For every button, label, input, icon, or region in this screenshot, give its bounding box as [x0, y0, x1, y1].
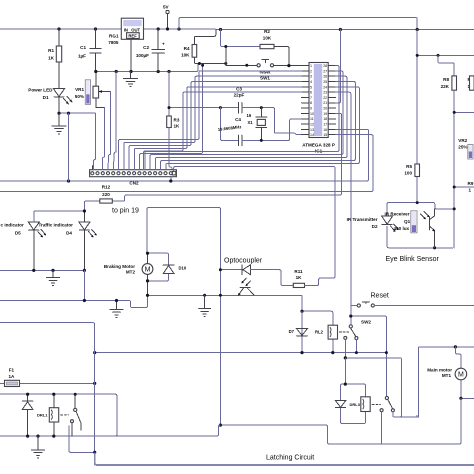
- svg-text:REF: REF: [128, 33, 137, 38]
- svg-text:C1: C1: [80, 45, 86, 50]
- switch SW2: [351, 302, 474, 325]
- wire indicator top rail y211: [34, 211, 85, 222]
- resistor R8: [438, 55, 457, 209]
- optocoupler LED: [219, 258, 293, 286]
- svg-text:1µF: 1µF: [78, 54, 86, 59]
- potentiometer VR1: [75, 72, 111, 108]
- svg-text:28: 28: [323, 64, 327, 68]
- wire C4 left drop: [220, 108, 238, 141]
- svg-text:22pF: 22pF: [234, 93, 245, 98]
- svg-text:reset: reset: [260, 70, 271, 75]
- phototransistor Q1 labels: [385, 211, 411, 231]
- wire input rail y29: [0, 28, 215, 30]
- svg-text:12: 12: [310, 123, 314, 127]
- svg-text:11: 11: [310, 117, 314, 121]
- junction dots DRL1 rails: [26, 393, 29, 396]
- resistor R1: [48, 29, 62, 89]
- svg-text:F1: F1: [9, 368, 15, 373]
- resistor cut at right edge (R7): [468, 76, 474, 90]
- svg-text:VR2: VR2: [458, 138, 467, 143]
- svg-text:OUT: OUT: [131, 28, 140, 33]
- wire D4 col to bus y300.5: [83, 270, 85, 300]
- svg-text:ATMEGA 328 P: ATMEGA 328 P: [302, 143, 335, 148]
- wire MT1 bottom y398.3 to right edge: [461, 397, 474, 399]
- svg-text:IN: IN: [124, 28, 128, 33]
- svg-text:25%: 25%: [458, 145, 467, 150]
- relay DRL3 contact: [380, 396, 400, 444]
- diode D10 flyback: [146, 252, 187, 283]
- svg-text:Optocoupler: Optocoupler: [224, 258, 263, 265]
- svg-text:D7: D7: [289, 329, 295, 334]
- svg-text:c indicator: c indicator: [1, 223, 24, 228]
- connector CN2: [90, 165, 177, 185]
- svg-text:R8: R8: [443, 77, 449, 82]
- svg-text:D2: D2: [372, 224, 378, 229]
- svg-text:1: 1: [310, 64, 312, 68]
- wire SW2 branch y316.1 to DRL3 common: [351, 316, 387, 396]
- svg-text:1K: 1K: [174, 124, 181, 129]
- svg-text:Main motor: Main motor: [427, 368, 452, 373]
- svg-text:18: 18: [323, 117, 327, 121]
- wire D7/RL2 top row y311: [302, 311, 333, 325]
- svg-text:RG1: RG1: [109, 34, 119, 39]
- ground under RG1: [124, 72, 138, 87]
- svg-text:25: 25: [323, 80, 327, 84]
- wire y187 to right edge: [454, 186, 474, 188]
- svg-text:X1: X1: [248, 120, 254, 125]
- potentiometer VR2 (cut at edge): [458, 138, 473, 159]
- LED D1 (Power LED): [28, 88, 72, 114]
- wire y112.4 to right edge: [454, 111, 474, 113]
- relay RL2 contact: [344, 318, 358, 358]
- capacitor C4: [235, 117, 301, 146]
- svg-text:2: 2: [310, 69, 312, 73]
- svg-text:1: 1: [469, 188, 472, 193]
- svg-text:7: 7: [310, 96, 312, 100]
- wire 5V top distribution: [179, 18, 417, 30]
- svg-text:9: 9: [310, 107, 312, 111]
- wire left feeder y322.7 and column x94.7: [0, 323, 95, 451]
- svg-text:R5: R5: [406, 164, 412, 169]
- wire motor emitter row y295.3: [148, 295, 303, 311]
- resistor R11: [293, 269, 335, 288]
- svg-text:DRL3: DRL3: [350, 402, 361, 407]
- svg-text:Latching Circuit: Latching Circuit: [266, 455, 314, 462]
- svg-text:17: 17: [323, 123, 327, 127]
- wire bottom rail to right edge: [95, 452, 474, 465]
- diode D7: [289, 311, 308, 352]
- ground under indicator rail: [47, 270, 60, 285]
- wire D1 net col to bus1: [68, 113, 70, 181]
- wire RL2 NO col to DRL3 row y357.9: [345, 358, 401, 417]
- svg-text:DRL1: DRL1: [37, 413, 48, 418]
- svg-text:Q1: Q1: [404, 219, 411, 224]
- wire latch output row y452.3: [69, 426, 95, 452]
- svg-text:R11: R11: [294, 269, 303, 274]
- crystal X1: [218, 108, 267, 141]
- wires MCU left pins 2-6 to CN2: [119, 71, 302, 170]
- switch SW1 (reset): [224, 45, 301, 80]
- svg-text:15: 15: [323, 133, 327, 137]
- wire AVCC from top rail to pin 21: [336, 30, 341, 103]
- svg-text:100: 100: [404, 171, 412, 176]
- motor MT1 (Main motor): [427, 347, 466, 398]
- bus1 y181: [0, 129, 369, 181]
- relay DRL3 loop frame: [341, 383, 366, 424]
- svg-text:MT1: MT1: [442, 373, 452, 378]
- svg-text:1K: 1K: [48, 56, 55, 61]
- resistor R2: [221, 29, 289, 66]
- svg-text:R3: R3: [174, 118, 180, 123]
- bus2 y191.5: [0, 135, 373, 192]
- LED D4 (Traffic indicator): [39, 211, 97, 270]
- svg-text:4: 4: [310, 80, 312, 84]
- relay RL2 coil: [315, 325, 349, 352]
- svg-text:7805: 7805: [108, 40, 119, 45]
- optocoupler phototransistor Q: [238, 278, 255, 296]
- svg-text:Power LED: Power LED: [28, 88, 53, 93]
- svg-text:14: 14: [310, 133, 314, 137]
- wires CN2 left feeds from VR1/LED area: [93, 72, 116, 170]
- junction dots on input rail: [57, 27, 180, 30]
- wire main motor net top y346.9: [420, 346, 474, 348]
- svg-text:Traffic indicator: Traffic indicator: [39, 223, 74, 228]
- svg-text:SW2: SW2: [361, 320, 371, 325]
- relay DRL1 coil: [37, 394, 68, 436]
- svg-text:220: 220: [102, 192, 110, 197]
- phototransistor Q1: [421, 209, 436, 248]
- svg-text:24: 24: [323, 85, 327, 89]
- diode DRL1 clamp: [22, 394, 33, 436]
- resistor R3: [167, 116, 180, 171]
- Q1 slider bar: [411, 211, 417, 233]
- resistor R12: [84, 113, 341, 211]
- LED D2 (IR Transmitter): [347, 216, 399, 232]
- relay DRL1 contact: [71, 394, 81, 436]
- svg-text:22K: 22K: [441, 84, 450, 89]
- wire latch rail y436: [0, 425, 220, 436]
- svg-text:D5: D5: [15, 231, 21, 236]
- svg-text:50%: 50%: [75, 94, 84, 99]
- svg-text:to pin 19: to pin 19: [112, 208, 139, 215]
- svg-text:27: 27: [323, 69, 327, 73]
- resistor R5: [404, 164, 419, 177]
- svg-text:21: 21: [323, 101, 327, 105]
- svg-text:R2: R2: [264, 29, 270, 34]
- svg-text:D4: D4: [66, 231, 72, 236]
- svg-text:5: 5: [310, 85, 312, 89]
- svg-text:R1: R1: [48, 48, 54, 53]
- capacitor C1: [78, 29, 101, 72]
- svg-text:C2: C2: [143, 45, 149, 50]
- svg-text:23: 23: [323, 91, 327, 95]
- wire reset net down to CN2: [140, 65, 203, 169]
- relay DRL3 coil: [350, 397, 381, 412]
- wire R11 riser col x335 to CN2 square: [174, 167, 335, 277]
- svg-text:8: 8: [310, 101, 312, 105]
- svg-text:Eye Blink Sensor: Eye Blink Sensor: [386, 256, 440, 263]
- resistor R4: [181, 30, 227, 66]
- IC pin stubs and numbers: [302, 64, 336, 137]
- wire LED bottom row y113: [59, 112, 96, 114]
- svg-text:MT2: MT2: [126, 270, 136, 275]
- svg-text:16: 16: [323, 128, 327, 132]
- svg-text:M: M: [145, 267, 151, 274]
- svg-text:+: +: [162, 42, 165, 47]
- wires MCU right pins 28-24 nest to CN2: [145, 66, 359, 170]
- svg-text:Reset: Reset: [371, 293, 389, 300]
- svg-text:VR1: VR1: [75, 87, 84, 92]
- svg-text:19: 19: [323, 112, 327, 116]
- LED D5 (Traffic indicator): [1, 212, 47, 270]
- wire pin23 col down to SW2: [336, 92, 351, 305]
- wire vcc top y29.5: [216, 29, 474, 31]
- diode DRL3 flyback on left edge: [335, 400, 346, 407]
- wire crystal ground net y107.6: [169, 72, 239, 117]
- svg-text:3: 3: [310, 75, 312, 79]
- VR1 slider bar: [85, 80, 90, 105]
- svg-text:20: 20: [323, 107, 327, 111]
- wire MT1 col down to latch rail y443.9: [222, 398, 461, 444]
- svg-text:Braking Motor: Braking Motor: [104, 264, 135, 269]
- motor MT2 (Braking Motor): [104, 253, 153, 295]
- svg-text:RL2: RL2: [315, 330, 324, 335]
- ground under DRL1: [32, 436, 45, 458]
- svg-text:100µF: 100µF: [136, 53, 149, 58]
- svg-text:D10: D10: [179, 266, 187, 271]
- op IC U1 ATMEGA 328P body: [302, 63, 335, 154]
- svg-text:400 lux: 400 lux: [394, 226, 410, 231]
- node 5V: [163, 5, 170, 30]
- svg-text:13: 13: [310, 128, 314, 132]
- wire DRL1 top rail y394.2 drop to latch rail: [0, 394, 117, 436]
- svg-text:1K: 1K: [296, 275, 303, 280]
- svg-text:10K: 10K: [181, 53, 190, 58]
- capacitor C2: [136, 29, 165, 72]
- wire vcc right column x417: [416, 30, 418, 203]
- wire indicator bottom rail y270.4: [0, 269, 84, 271]
- svg-text:C4: C4: [235, 117, 241, 122]
- ground rail y71.5: [96, 64, 200, 72]
- ground on bus y300.5: [110, 299, 123, 318]
- eye blink sensor frame: [387, 201, 456, 249]
- bus y300.5 with jog to motor: [0, 295, 148, 307]
- svg-text:M: M: [458, 372, 464, 379]
- svg-text:10K: 10K: [263, 36, 272, 41]
- wire RG1 REF to rail: [130, 39, 132, 72]
- svg-text:1A: 1A: [8, 374, 15, 379]
- svg-text:5V: 5V: [163, 5, 170, 10]
- ground under D1: [52, 113, 66, 134]
- svg-text:R12: R12: [102, 185, 111, 190]
- svg-text:IR Receiver: IR Receiver: [385, 211, 410, 216]
- svg-text:D1: D1: [43, 95, 49, 100]
- svg-text:16: 16: [247, 113, 252, 118]
- capacitor C3: [234, 87, 302, 135]
- svg-text:R4: R4: [184, 46, 190, 51]
- svg-text:6: 6: [310, 91, 312, 95]
- svg-text:22: 22: [323, 96, 327, 100]
- ground mid (under optocoupler): [199, 295, 211, 316]
- voltage regulator RG1 7805: [108, 18, 143, 45]
- fuse F1: [0, 368, 96, 387]
- svg-text:R9: R9: [468, 181, 474, 186]
- wire y55.4 to right edge: [417, 54, 474, 56]
- bus ground y352.6: [95, 352, 387, 354]
- svg-text:10: 10: [310, 112, 314, 116]
- wire braking motor feed row y207.5 down to optocoupler and latch: [147, 208, 222, 426]
- svg-text:26: 26: [323, 75, 327, 79]
